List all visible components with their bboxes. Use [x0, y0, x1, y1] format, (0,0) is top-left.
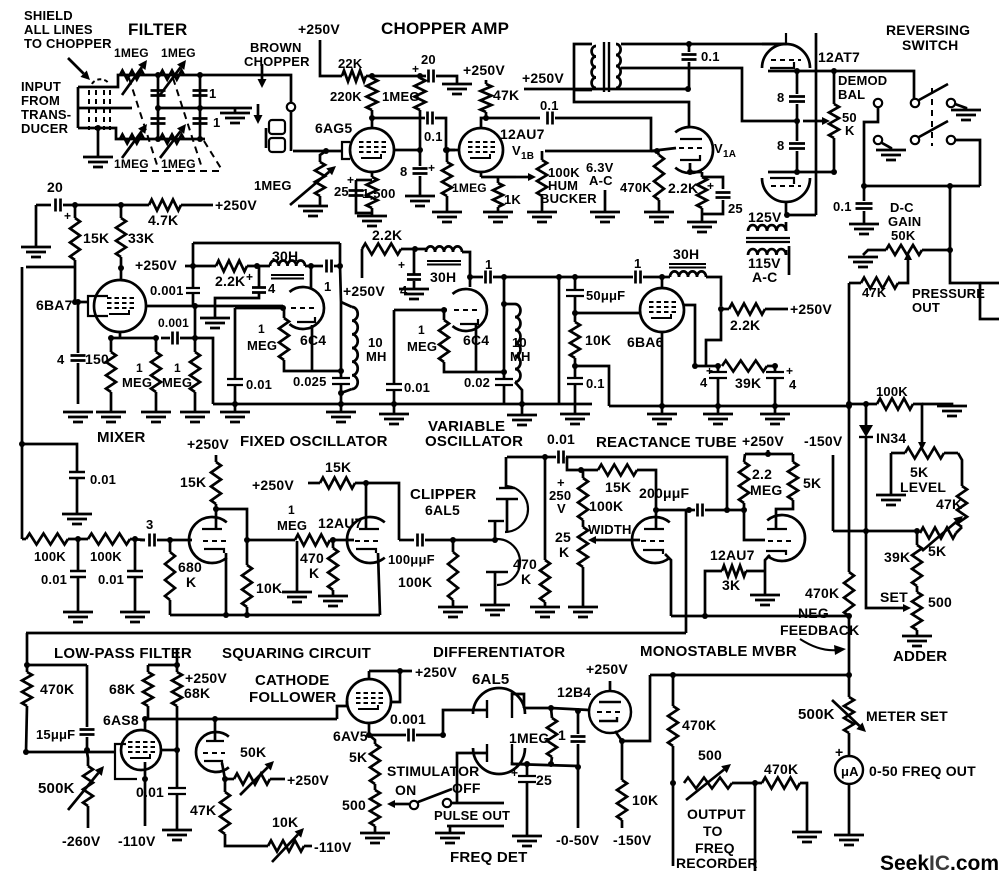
wire 2.2K to cap4: [247, 265, 270, 268]
svg-text:6AG5: 6AG5: [315, 120, 352, 136]
wire 20 to 4.7K: [63, 204, 149, 207]
wire +250V to 15K2: [308, 482, 320, 485]
svg-text:1B: 1B: [521, 151, 534, 162]
transformer 125V core: [746, 238, 790, 242]
svg-text:+: +: [511, 766, 518, 780]
wire clipper input row: [140, 539, 145, 542]
svg-text:25: 25: [728, 201, 743, 216]
svg-text:10K: 10K: [632, 792, 658, 808]
wiper arrow stim: [395, 803, 403, 806]
wire coupling row y540: [247, 539, 295, 542]
svg-text:GAIN: GAIN: [888, 214, 921, 229]
wire 0.01 to reactance network: [567, 457, 581, 470]
wire 1MEG to grid2: [330, 539, 354, 542]
ground under 10MH var: [521, 404, 524, 415]
wire upper row to switch: [834, 71, 914, 99]
svg-text:CHOPPER AMP: CHOPPER AMP: [381, 19, 509, 38]
wire squaring bottom bus: [170, 614, 380, 617]
svg-text:+: +: [246, 270, 253, 284]
svg-text:1: 1: [258, 322, 265, 336]
svg-text:TRANS-: TRANS-: [21, 107, 71, 122]
svg-text:22K: 22K: [338, 56, 363, 71]
wire filter mid to chopper: [235, 107, 252, 110]
wire 33K to +250V node: [120, 257, 123, 268]
wiper arrow set: [895, 607, 903, 610]
dashed gang lines: [129, 78, 222, 171]
wire 15K to grid node: [74, 260, 77, 302]
wire 12AT7 upper cathode row: [768, 70, 834, 73]
svg-text:+: +: [707, 179, 714, 193]
tube 6AS8 triode b: [196, 732, 229, 772]
ground meter: [834, 835, 864, 845]
wire adder row: [833, 530, 917, 533]
wire V1A grid: [651, 148, 676, 151]
wire 10K to -110V: [304, 845, 312, 848]
wire squaring a cathode: [225, 553, 228, 615]
svg-text:K: K: [186, 574, 196, 590]
wire 2.2K to 30H: [401, 248, 426, 251]
svg-text:6AL5: 6AL5: [425, 502, 460, 518]
resistor 100K hum bucker: [537, 160, 547, 196]
ground 0.01 bus: [62, 514, 92, 524]
wire hum bucker bottom to ground: [541, 196, 544, 212]
svg-text:0.01: 0.01: [404, 380, 430, 395]
wire 0.1 to grid area V1A: [555, 118, 651, 151]
svg-text:500: 500: [698, 747, 722, 763]
tube 12AT7 lower half: [762, 178, 810, 202]
svg-text:12AU7: 12AU7: [710, 547, 755, 563]
ground set pot: [902, 636, 932, 646]
svg-text:1: 1: [136, 361, 143, 375]
wire left bus vertical: [21, 267, 24, 539]
svg-text:1: 1: [288, 503, 295, 517]
svg-text:3K: 3K: [722, 577, 740, 593]
svg-text:1: 1: [324, 279, 331, 294]
svg-text:0.1: 0.1: [833, 199, 852, 214]
wire long left vertical to 100K: [848, 283, 851, 404]
wire hum line: [545, 150, 657, 153]
svg-text:-150V: -150V: [613, 832, 652, 848]
svg-text:FREQ DET: FREQ DET: [450, 849, 527, 866]
wire clipper plate corner to 0.01: [507, 456, 545, 459]
svg-text:0.01: 0.01: [41, 572, 67, 587]
svg-text:30H: 30H: [673, 246, 699, 262]
svg-text:-110V: -110V: [118, 833, 156, 849]
svg-text:FIXED OSCILLATOR: FIXED OSCILLATOR: [240, 433, 388, 450]
svg-text:5K: 5K: [349, 749, 367, 765]
wire +250V squaring stub: [215, 455, 218, 462]
wire +250V node: [369, 670, 412, 673]
svg-text:220K: 220K: [330, 89, 362, 104]
svg-text:BAL: BAL: [838, 87, 865, 102]
wire 6AL5 out row y708: [524, 707, 551, 710]
wire fb node down: [848, 616, 851, 675]
svg-text:1MEG: 1MEG: [452, 181, 487, 195]
svg-text:SHIELD: SHIELD: [24, 8, 73, 23]
svg-text:+: +: [398, 258, 405, 272]
svg-text:MEG: MEG: [247, 338, 277, 353]
svg-text:4: 4: [268, 281, 276, 296]
wire right vertical with 0.025: [340, 302, 343, 371]
wire pressure out branch: [950, 250, 999, 319]
svg-text:47K: 47K: [493, 87, 519, 103]
svg-text:47K: 47K: [190, 802, 216, 818]
wire +250V primary bottom: [524, 88, 688, 91]
svg-text:TO: TO: [703, 823, 723, 839]
terminal chopper contact: [287, 103, 295, 111]
wire 6.3V stub: [604, 190, 607, 212]
svg-text:A-C: A-C: [752, 269, 777, 285]
ground 470K reactance: [530, 607, 560, 617]
svg-text:+250V: +250V: [252, 477, 294, 493]
wire fixed osc bottom bus: [213, 403, 592, 406]
svg-text:200μμF: 200μμF: [639, 485, 689, 501]
clipper diode upper cathode: [496, 498, 518, 500]
wiper arrow into 5K level: [921, 438, 924, 442]
potentiometer D-C gain 50K: [886, 245, 922, 255]
capacitor filter 2b: [193, 119, 208, 124]
svg-text:39K: 39K: [735, 375, 761, 391]
wire 50K to +250V: [270, 778, 285, 781]
ground 1MEG a: [141, 412, 171, 422]
svg-text:+: +: [786, 364, 793, 378]
6AL5 lower plate bar: [486, 744, 488, 762]
wire 1 cap to right: [334, 265, 340, 268]
wire input top: [78, 75, 255, 87]
ground 0.1 reactance: [560, 414, 590, 424]
wire 470K2 to ground: [800, 783, 807, 832]
svg-text:470K: 470K: [620, 180, 652, 195]
wire set to ground: [916, 630, 919, 636]
svg-text:+250V: +250V: [343, 283, 385, 299]
tube 6AL5 freq lower dome: [473, 748, 525, 774]
svg-text:PRESSURE: PRESSURE: [912, 286, 985, 301]
svg-text:0.025: 0.025: [293, 374, 327, 389]
svg-text:MEG: MEG: [277, 518, 307, 533]
wire top filter to chopper contact: [255, 75, 291, 102]
ground 25 freq: [512, 836, 542, 846]
svg-text:μA: μA: [841, 764, 859, 779]
wire 500 to 470K2: [732, 782, 762, 785]
wire input row y205: [36, 204, 51, 207]
wire screen node to 6BA7: [120, 268, 123, 281]
svg-text:+250V: +250V: [287, 772, 329, 788]
ground 100K clipper: [438, 607, 468, 617]
wire 5K to plate2: [776, 500, 793, 518]
ground 0.01 row a: [63, 612, 93, 622]
wire left bus corner: [26, 632, 27, 635]
wire mvbr cathode bus: [671, 615, 849, 618]
wire lower row: [768, 171, 834, 174]
wire 100K a-b: [68, 538, 88, 541]
svg-text:0.1: 0.1: [540, 98, 559, 113]
svg-text:4: 4: [400, 283, 408, 298]
svg-text:0.01: 0.01: [98, 572, 124, 587]
capacitor 0.1 across secondary: [682, 55, 697, 60]
svg-text:DIFFERENTIATOR: DIFFERENTIATOR: [433, 644, 565, 661]
wire left bus to grid: [26, 266, 75, 269]
wire 6AS8 grid row right: [161, 749, 177, 752]
terminal pulse out: [443, 799, 451, 807]
wire 0.1 cap to V1B grid: [435, 118, 455, 150]
wire 100uuF to diode: [425, 539, 495, 542]
grid connector 6AS8: [115, 744, 137, 779]
svg-text:100K: 100K: [34, 549, 66, 564]
svg-text:+250V: +250V: [135, 257, 177, 273]
arrow chopper 1: [261, 64, 264, 79]
ground row reactance b: [717, 406, 720, 414]
wire mvbr a cathode: [665, 554, 671, 616]
svg-text:MEG: MEG: [407, 339, 437, 354]
svg-text:39K: 39K: [884, 549, 910, 565]
potentiometer 100K hum bucker wiper: [516, 176, 528, 179]
wire variable right vertical: [503, 277, 506, 304]
wire plate row y719: [145, 718, 337, 721]
svg-text:680: 680: [178, 559, 202, 575]
wire 20 cap to ground: [436, 76, 457, 84]
wire bus tap to 0.01a: [22, 444, 77, 472]
wire 1MEG pot to ground: [319, 196, 322, 206]
svg-text:MIXER: MIXER: [97, 429, 146, 446]
wire grid left mvbr tube: [604, 539, 640, 542]
tube 12AU7 squaring a: [189, 517, 227, 563]
switch terminal upper left: [874, 99, 882, 107]
pulse out jack: [447, 825, 504, 828]
svg-text:+: +: [64, 209, 71, 223]
wire stim pot ground: [374, 826, 377, 833]
svg-text:15K: 15K: [325, 459, 351, 475]
svg-text:2.2K: 2.2K: [668, 180, 698, 196]
svg-text:CATHODE: CATHODE: [255, 672, 329, 689]
svg-text:K: K: [559, 544, 569, 560]
svg-text:4: 4: [57, 352, 65, 367]
svg-text:100K: 100K: [589, 498, 623, 514]
ground bus under tank: [340, 404, 343, 412]
wire 8uF to ground: [419, 150, 422, 166]
wiper arrow width: [596, 539, 604, 542]
wire 115V right stub: [788, 246, 791, 275]
wire lp left down: [27, 633, 87, 665]
svg-text:10K: 10K: [585, 332, 611, 348]
ground filter mid: [234, 108, 237, 113]
tube 6AL5 clipper lower: [497, 539, 520, 585]
svg-text:ADDER: ADDER: [893, 648, 947, 665]
switch terminal lower right: [947, 136, 955, 144]
svg-text:FOLLOWER: FOLLOWER: [249, 689, 336, 706]
wire DC gain row: [864, 185, 980, 188]
svg-text:METER SET: METER SET: [866, 708, 948, 724]
svg-text:REACTANCE TUBE: REACTANCE TUBE: [596, 434, 737, 451]
wire mvbr plate rail to 470K fb: [848, 406, 851, 572]
wire var grid down: [393, 310, 396, 384]
wire 220K bottom to plate node: [371, 110, 374, 118]
svg-text:DEMOD: DEMOD: [838, 73, 887, 88]
wire lp row: [26, 751, 114, 754]
ground 20 cap: [21, 247, 51, 257]
svg-text:IN34: IN34: [876, 430, 906, 446]
bracket 25 and 1500: [371, 172, 374, 177]
ground 470K squaring: [318, 596, 348, 606]
svg-text:6AV5: 6AV5: [333, 728, 368, 744]
svg-text:10: 10: [368, 335, 383, 350]
potentiometer 5K level: [905, 448, 944, 459]
svg-text:8: 8: [777, 90, 784, 105]
svg-text:500: 500: [342, 797, 366, 813]
wire 6C4 grid: [235, 307, 284, 310]
wire 3 cap to grid: [157, 539, 192, 542]
wire meter to ground: [848, 784, 851, 835]
wire cathode to rail: [622, 675, 650, 741]
wire 1MEG bottom to cathode row: [284, 360, 341, 371]
wiper arrow 50K: [812, 120, 822, 123]
svg-text:PULSE OUT: PULSE OUT: [434, 808, 510, 823]
wire 10MH taps: [341, 302, 352, 307]
svg-text:30H: 30H: [430, 269, 456, 285]
svg-text:TO CHOPPER: TO CHOPPER: [24, 36, 112, 51]
wire 22K to caps: [366, 75, 426, 78]
ground input: [83, 157, 113, 167]
svg-text:-150V: -150V: [804, 433, 843, 449]
svg-text:150: 150: [85, 351, 109, 367]
svg-text:V: V: [714, 141, 723, 156]
clipper diode lower plate: [488, 520, 504, 522]
capacitor filter 2a: [193, 91, 208, 96]
svg-text:BUCKER: BUCKER: [540, 191, 597, 206]
wire cathode to hum pot: [498, 176, 516, 179]
tube 12AT7 upper half: [762, 44, 810, 68]
ground 470K: [644, 212, 674, 222]
svg-text:3: 3: [146, 517, 153, 532]
ground 1K: [483, 212, 513, 222]
svg-text:MEG: MEG: [122, 375, 152, 390]
wire cathode row: [111, 337, 156, 340]
wire lower-right terminal to DC gain: [955, 140, 980, 186]
wire 6C4 var grid: [394, 309, 447, 312]
ground 1MEG b: [180, 412, 210, 422]
wire 1 cap wire: [470, 276, 483, 279]
wire V1B cathode down: [480, 172, 483, 177]
svg-text:0.1: 0.1: [424, 129, 443, 144]
svg-text:NEG: NEG: [798, 605, 829, 621]
svg-text:10K: 10K: [256, 580, 282, 596]
transformer primary: [574, 44, 592, 90]
svg-text:RECORDER: RECORDER: [676, 855, 758, 871]
wire bus end: [591, 403, 594, 406]
potentiometer 50K: [234, 774, 270, 785]
wire grid row 6BA6: [575, 312, 641, 315]
6AL5 upper plate bar: [486, 700, 488, 718]
svg-text:K: K: [309, 565, 319, 581]
svg-text:MEG: MEG: [162, 375, 192, 390]
wire 1 cap row: [575, 276, 633, 279]
svg-text:STIMULATOR: STIMULATOR: [387, 763, 479, 779]
wire clipper diode plate: [505, 457, 508, 488]
wire level left ground: [890, 453, 893, 495]
svg-text:15K: 15K: [180, 474, 206, 490]
wire output bracket right: [754, 783, 757, 871]
svg-text:1MEG: 1MEG: [254, 178, 292, 193]
svg-text:500K: 500K: [38, 780, 75, 797]
svg-text:FEEDBACK: FEEDBACK: [780, 622, 859, 638]
svg-text:WIDTH: WIDTH: [588, 522, 632, 537]
wire 47K to plate node: [485, 112, 488, 118]
wire V1A cathode: [690, 163, 702, 172]
ground 1MEG pot: [298, 206, 328, 216]
svg-text:2.2K: 2.2K: [215, 273, 245, 289]
svg-text:DUCER: DUCER: [21, 121, 69, 136]
wire 6C4 cathode down: [311, 325, 314, 371]
wire 6AV5 plate: [368, 671, 371, 679]
node input ground junction: [95, 125, 101, 131]
svg-text:CLIPPER: CLIPPER: [410, 486, 476, 503]
wire to input ground: [97, 128, 100, 157]
svg-text:10K: 10K: [272, 814, 298, 830]
svg-text:2.2: 2.2: [752, 466, 772, 482]
svg-text:1MEG: 1MEG: [509, 730, 549, 746]
svg-text:+250V: +250V: [187, 436, 229, 452]
tube 6AL5 clipper upper: [505, 486, 528, 532]
clipper diode lower cathode: [486, 571, 508, 573]
svg-text:0-50 FREQ OUT: 0-50 FREQ OUT: [869, 763, 976, 779]
tube 6AL5 freq upper dome: [473, 688, 525, 714]
svg-text:FREQ: FREQ: [695, 840, 735, 856]
wiper arrow DC gain: [907, 260, 910, 268]
wire fixed osc top rail: [193, 242, 340, 245]
tube 12AU7 mvbr a: [632, 517, 670, 563]
svg-text:8: 8: [777, 138, 784, 153]
svg-text:0.001: 0.001: [390, 711, 426, 727]
switch terminal lower left: [874, 136, 882, 144]
capacitor filter 1a: [151, 91, 166, 96]
wire input left vertical: [77, 87, 80, 128]
wire 6AS8 plate: [144, 719, 147, 730]
potentiometer 500 out: [684, 778, 732, 789]
svg-text:8: 8: [400, 164, 407, 179]
wire plate node to 6AG5: [371, 118, 374, 129]
svg-text:470: 470: [300, 550, 324, 566]
wire 200uuF row: [656, 509, 689, 512]
svg-text:SQUARING CIRCUIT: SQUARING CIRCUIT: [222, 645, 371, 662]
svg-text:SET: SET: [880, 589, 908, 605]
wire screen jog: [391, 671, 400, 702]
transformer 125V winding: [748, 225, 786, 231]
svg-text:6BA7: 6BA7: [36, 297, 73, 313]
6AL5 upper cathode: [511, 700, 513, 718]
wire filter mid to ground: [158, 107, 235, 110]
svg-text:1: 1: [558, 727, 566, 743]
wire 47K to 10K pot: [225, 834, 268, 846]
wire cathode node: [481, 176, 498, 179]
svg-text:+250V: +250V: [586, 661, 628, 677]
svg-text:1: 1: [174, 361, 181, 375]
svg-text:125V: 125V: [748, 209, 782, 225]
svg-text:1: 1: [485, 257, 492, 272]
svg-text:5K: 5K: [928, 543, 946, 559]
wire mvbr plate to neg feedback line: [685, 510, 688, 633]
wire 6BA6 cathode: [661, 332, 664, 406]
svg-text:FILTER: FILTER: [128, 20, 187, 39]
transformer 115V winding: [748, 249, 786, 255]
6AL5 lower cathode: [511, 744, 513, 762]
wire 4.7K to +250V: [181, 204, 213, 207]
wire DC gain left to ground: [863, 250, 886, 255]
ground upper right: [955, 104, 966, 110]
svg-text:470K: 470K: [40, 681, 74, 697]
wire 15K2 to tube2 and cap: [355, 483, 399, 540]
wire secondary mid tap: [621, 68, 797, 121]
wire hum bucker top: [541, 151, 544, 160]
svg-text:470K: 470K: [764, 761, 798, 777]
